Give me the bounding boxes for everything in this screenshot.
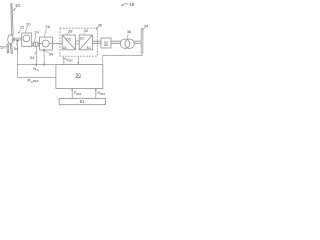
converter 40 (DC/AC) bbox=[79, 35, 92, 50]
wire box32 to transformer bbox=[111, 41, 120, 43]
svg-text:AC: AC bbox=[63, 46, 68, 50]
svg-text:18: 18 bbox=[129, 2, 134, 7]
wire converter output bbox=[93, 41, 101, 43]
svg-text:50: 50 bbox=[76, 72, 82, 77]
svg-text:REF: REF bbox=[100, 92, 106, 96]
svg-text:24: 24 bbox=[34, 29, 39, 34]
svg-text:32: 32 bbox=[104, 40, 109, 45]
svg-text:54: 54 bbox=[30, 55, 35, 60]
wire grid sensor to controller bbox=[103, 52, 142, 64]
svg-text:DC: DC bbox=[80, 37, 85, 41]
svg-text:REF: REF bbox=[33, 79, 39, 83]
svg-text:20: 20 bbox=[26, 21, 31, 26]
svg-text:40: 40 bbox=[84, 28, 89, 33]
svg-text:REF: REF bbox=[76, 92, 82, 96]
V_REF arrow bbox=[63, 58, 65, 64]
svg-text:22: 22 bbox=[20, 24, 25, 29]
N_REF arrow bbox=[95, 90, 97, 99]
svg-text:G: G bbox=[37, 68, 39, 72]
svg-text:54: 54 bbox=[14, 46, 19, 51]
blade B3 (down) bbox=[10, 44, 12, 53]
power converter dashed box bbox=[60, 28, 97, 56]
svg-text:REF: REF bbox=[68, 58, 74, 62]
svg-text:54: 54 bbox=[49, 52, 54, 57]
controller 50 bbox=[56, 65, 103, 89]
node sensor 54 on generator bbox=[43, 49, 45, 51]
svg-text:26: 26 bbox=[45, 24, 50, 29]
wire PG_REF to controller bbox=[17, 76, 55, 78]
wire shaft sensor down bbox=[16, 41, 18, 78]
wire DC link bbox=[76, 41, 80, 44]
node sensor 54 on shaft bbox=[16, 40, 18, 42]
wire NG bus bbox=[17, 64, 56, 66]
coupling bbox=[34, 42, 38, 46]
wire transformer to grid bbox=[134, 41, 141, 43]
svg-text:DC: DC bbox=[66, 37, 71, 41]
hub bbox=[8, 35, 14, 44]
transformer T1 bbox=[120, 39, 129, 48]
grid bus bar 34 bbox=[141, 28, 143, 52]
svg-text:36: 36 bbox=[127, 29, 132, 34]
node sensor 54 on coupling bbox=[35, 47, 37, 65]
svg-text:51: 51 bbox=[80, 99, 85, 104]
box 32 bbox=[101, 38, 111, 48]
svg-text:38: 38 bbox=[68, 28, 73, 33]
wire low-speed shaft bbox=[14, 38, 22, 40]
wire generator to converter bbox=[52, 43, 62, 45]
converter 38 (AC/DC) bbox=[62, 35, 75, 50]
svg-text:10: 10 bbox=[15, 3, 20, 8]
svg-text:AC: AC bbox=[86, 46, 91, 50]
wire high-speed shaft bbox=[32, 44, 40, 46]
wire converter feedback arrow bbox=[77, 56, 79, 63]
controller 51 bbox=[59, 99, 105, 105]
blade B1 (up) bbox=[11, 4, 13, 35]
P_REF arrow bbox=[71, 90, 73, 99]
gearbox bbox=[22, 33, 32, 46]
generator G bbox=[40, 37, 53, 50]
blade B2 (down-left) bbox=[7, 44, 9, 53]
wire bbox=[7, 4, 143, 57]
svg-text:30: 30 bbox=[98, 22, 103, 27]
